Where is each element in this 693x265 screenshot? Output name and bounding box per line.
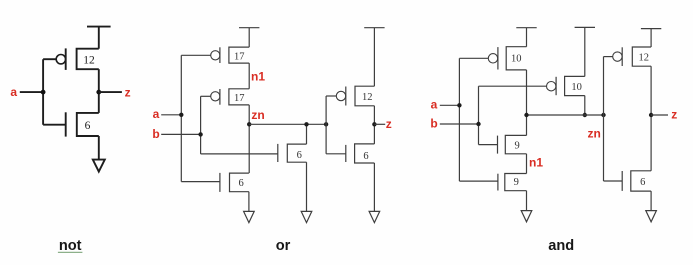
svg-text:6: 6 <box>238 178 243 189</box>
nmos transistor 6 (and inverter) <box>622 171 651 191</box>
svg-text:17: 17 <box>234 51 245 62</box>
wire nmos source to ground (and left) <box>526 191 528 211</box>
junction node b (and) <box>476 122 480 126</box>
junction node z (or) <box>372 122 376 126</box>
wire z stub (and) <box>651 114 668 116</box>
wire nmos source to ground (not) <box>98 136 100 160</box>
vdd rail (and pmos a) <box>516 28 536 47</box>
svg-text:17: 17 <box>234 93 245 104</box>
svg-text:b: b <box>152 127 159 141</box>
pmos transistor 10 (gate b) <box>547 76 585 95</box>
junction node a (not) <box>41 90 46 95</box>
wire node n1 (or) <box>248 63 250 89</box>
ground (and left) <box>521 211 532 222</box>
svg-text:9: 9 <box>514 177 519 188</box>
wire z stub <box>99 91 122 93</box>
svg-text:10: 10 <box>511 54 522 65</box>
nmos transistor 9 lower (gate a) <box>498 174 527 191</box>
grammar underline under not <box>58 251 83 253</box>
junction node a (or) <box>179 113 183 117</box>
wire input a to gates <box>20 59 66 125</box>
wire pmos a drain to zn <box>526 70 528 135</box>
svg-text:6: 6 <box>640 177 645 188</box>
wire node z vertical (or) <box>373 106 375 144</box>
svg-text:n1: n1 <box>251 69 265 83</box>
wire node z vertical (and) <box>650 66 652 171</box>
wire output z vertical <box>98 69 100 113</box>
svg-text:10: 10 <box>571 82 582 93</box>
svg-text:z: z <box>125 85 131 99</box>
svg-text:6: 6 <box>297 150 302 161</box>
wire nmos source to ground (and inverter) <box>650 191 652 211</box>
wire z stub (or) <box>374 123 385 125</box>
vdd rail (or inverter) <box>364 28 384 86</box>
vdd rail (or nor stack) <box>239 28 259 47</box>
nmos transistor 6 lower-left (gate a) <box>220 173 249 192</box>
junction inverter input (and) <box>601 113 605 117</box>
junction pmos b drain on zn <box>583 113 587 117</box>
wire node zn horizontal (and) <box>527 114 604 116</box>
wire nmos source to ground (or left) <box>248 192 250 212</box>
vdd rail (not) <box>87 27 111 49</box>
junction node z (and) <box>649 113 653 117</box>
svg-text:a: a <box>431 98 438 112</box>
wire node n1 (and) <box>526 154 528 174</box>
wire nmos source to ground (or inverter) <box>373 163 375 211</box>
svg-text:not: not <box>59 238 82 254</box>
svg-text:z: z <box>671 108 677 122</box>
svg-text:a: a <box>10 85 17 99</box>
pmos transistor 10 (gate a) <box>488 47 526 70</box>
pmos transistor 12 (or inverter) <box>336 86 374 106</box>
vdd rail (and inverter) <box>641 29 661 47</box>
nmos transistor 6 (not pull-down) <box>66 112 99 136</box>
wire inverter input (or) <box>326 96 346 154</box>
junction node zn (and) <box>524 113 528 117</box>
nmos transistor 6 (or inverter) <box>346 144 375 163</box>
wire pmos b drain to zn <box>584 96 586 115</box>
wire input a (and) <box>440 58 498 181</box>
ground (and inverter) <box>646 211 657 222</box>
svg-text:9: 9 <box>514 141 519 152</box>
junction middle drain on zn <box>304 122 308 126</box>
svg-text:6: 6 <box>85 120 91 132</box>
svg-text:b: b <box>430 117 437 131</box>
svg-text:12: 12 <box>638 52 649 63</box>
junction inverter input (or) <box>324 122 328 126</box>
svg-text:zn: zn <box>251 108 264 122</box>
svg-text:z: z <box>386 117 392 131</box>
pmos transistor 12 (not pull-up) <box>56 48 99 70</box>
wire node zn vertical (or) <box>248 105 250 173</box>
wire inverter input (and) <box>604 57 623 181</box>
nmos transistor 6 middle (gate b) <box>278 144 307 162</box>
svg-text:zn: zn <box>588 126 601 140</box>
svg-text:12: 12 <box>83 54 95 66</box>
junction node zn (or) <box>247 122 251 126</box>
wire middle nmos drain to zn <box>306 124 308 144</box>
ground (or middle) <box>301 211 312 222</box>
svg-text:12: 12 <box>362 92 373 103</box>
nmos transistor 9 upper (gate b) <box>498 135 527 153</box>
pmos transistor 12 (and inverter) <box>613 47 651 66</box>
junction node z (not) <box>96 90 101 95</box>
wire middle nmos source to ground <box>306 162 308 211</box>
junction node a (and) <box>457 103 461 107</box>
pmos transistor 17 upper (gate a) <box>211 47 250 63</box>
svg-text:6: 6 <box>363 151 368 162</box>
pmos transistor 17 lower (gate b) <box>211 89 250 105</box>
wire node zn horizontal (or) <box>249 123 326 125</box>
junction node b (or) <box>198 132 202 136</box>
wire input b (or) <box>161 96 278 154</box>
ground (or left) <box>244 211 255 222</box>
wire input a (or) <box>161 55 220 181</box>
ground (not) <box>93 160 105 172</box>
svg-text:n1: n1 <box>529 155 543 169</box>
svg-text:and: and <box>548 238 574 254</box>
ground (or inverter) <box>369 211 380 222</box>
svg-text:or: or <box>276 238 291 254</box>
svg-text:a: a <box>153 107 160 121</box>
vdd rail (and pmos b) <box>575 27 595 76</box>
wire input b (and) <box>440 86 547 144</box>
